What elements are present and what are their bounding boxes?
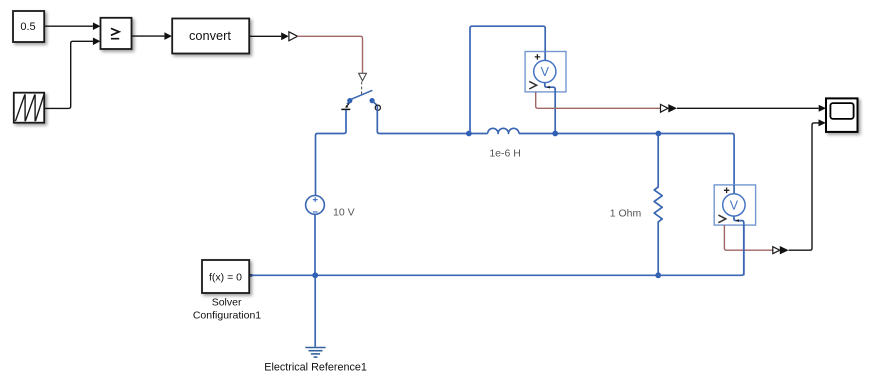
voltmeter U2 minus arrow bbox=[736, 219, 739, 222]
node resistor top bbox=[656, 131, 662, 137]
voltage source minus bbox=[313, 211, 318, 213]
wire relational to convert bbox=[132, 35, 165, 37]
arrowhead scope in1 bbox=[819, 105, 826, 112]
Simulink-PS boundary filled arrow bbox=[281, 32, 289, 40]
voltmeter U1 PS port chevron bbox=[529, 81, 536, 89]
wire constant to relational in1 bbox=[44, 25, 93, 27]
PS wire from voltmeter1 bbox=[536, 92, 661, 108]
voltmeter U2 box bbox=[714, 185, 755, 225]
wire voltmeter1 minus to rail bbox=[554, 92, 556, 134]
switch right lead bbox=[372, 101, 377, 105]
voltmeter U1 plus bbox=[535, 54, 541, 60]
svg-text:Solver: Solver bbox=[212, 296, 242, 308]
switch left lead bbox=[347, 101, 350, 104]
voltmeter U2 minus wire bbox=[734, 216, 744, 225]
ground electrical reference bbox=[305, 348, 325, 358]
inductor 1e-6 H bbox=[488, 128, 519, 133]
voltmeter U1 box bbox=[525, 52, 566, 92]
voltmeter U2 internal top wire bbox=[733, 185, 735, 194]
PS-Simulink filled arrow bbox=[668, 104, 677, 112]
wire loop to voltmeter1 plus bbox=[470, 26, 545, 133]
scope block bbox=[826, 98, 858, 131]
voltmeter U2 PS port chevron bbox=[718, 215, 725, 223]
arrowhead in2 bbox=[93, 38, 101, 46]
node right of inductor bbox=[552, 131, 558, 137]
signal wire to scope in2 bbox=[789, 123, 819, 250]
wire voltmeter2 minus to bottom rail bbox=[743, 225, 745, 275]
arrowhead in1 bbox=[93, 22, 101, 30]
voltmeter U1 circle bbox=[534, 60, 556, 82]
switch right contact circle bbox=[375, 105, 380, 110]
relational operator >= bbox=[101, 18, 132, 49]
svg-text:f(x) = 0: f(x) = 0 bbox=[209, 271, 242, 283]
switch left contact arrow bbox=[347, 103, 350, 106]
data type conversion block convert bbox=[172, 19, 249, 54]
svg-text:0.5: 0.5 bbox=[20, 21, 35, 33]
PS wire from voltmeter2 bbox=[724, 225, 772, 250]
rail right of inductor to voltmeter2 bbox=[519, 134, 734, 185]
wire to ground bbox=[314, 275, 316, 346]
node resistor bottom bbox=[655, 272, 661, 278]
wire switch right terminal to rail bbox=[377, 106, 487, 134]
voltage source plus bbox=[313, 197, 318, 202]
Simulink-PS boundary hollow arrow bbox=[289, 32, 298, 41]
dashed control line bbox=[361, 82, 363, 94]
switch terminal dot right bbox=[370, 98, 375, 103]
constant block 0.5 bbox=[13, 11, 44, 42]
PS-Simulink hollow arrow bbox=[661, 104, 669, 112]
PS-Simulink hollow arrow 2 bbox=[773, 247, 780, 254]
voltmeter U2 circle bbox=[723, 194, 745, 216]
svg-text:1 Ohm: 1 Ohm bbox=[610, 207, 642, 219]
switch terminal dot left bbox=[347, 98, 352, 103]
sawtooth source block bbox=[14, 93, 44, 123]
node left of inductor bbox=[466, 131, 472, 137]
svg-text:Electrical Reference1: Electrical Reference1 bbox=[264, 361, 367, 373]
wire convert out bbox=[249, 35, 281, 37]
switch left contact bar bbox=[341, 108, 350, 110]
solver configuration block bbox=[202, 260, 249, 293]
arrowhead convert in bbox=[164, 32, 172, 40]
svg-text:V: V bbox=[541, 65, 550, 79]
voltmeter U1 minus arrow bbox=[547, 86, 550, 89]
wire source bottom to rail bbox=[314, 214, 316, 275]
switch lever bbox=[350, 90, 372, 99]
bottom rail solver to voltmeter2 bbox=[249, 225, 744, 275]
svg-text:1e-6 H: 1e-6 H bbox=[489, 147, 521, 159]
svg-text:Configuration1: Configuration1 bbox=[193, 309, 261, 321]
PS-Simulink filled arrow 2 bbox=[780, 246, 789, 254]
voltmeter U1 minus wire bbox=[545, 83, 555, 92]
voltmeter U1 internal top wire bbox=[544, 52, 546, 61]
PS input port triangle bbox=[359, 73, 367, 81]
node source bottom bbox=[312, 272, 318, 278]
wire sawtooth to relational in2 bbox=[44, 41, 93, 108]
wire switch left terminal to voltage source bbox=[316, 110, 347, 196]
DC voltage source circle 10V bbox=[314, 195, 316, 197]
arrowhead scope in2 bbox=[819, 119, 826, 126]
svg-text:convert: convert bbox=[189, 28, 231, 43]
resistor 1 Ohm bbox=[654, 134, 662, 276]
signal wire to scope in1 bbox=[677, 107, 819, 109]
svg-text:10 V: 10 V bbox=[333, 206, 355, 218]
PS control wire to switch bbox=[297, 36, 362, 73]
svg-text:V: V bbox=[730, 199, 739, 213]
voltmeter U2 plus bbox=[724, 188, 730, 194]
solver PS port nub bbox=[250, 274, 253, 277]
